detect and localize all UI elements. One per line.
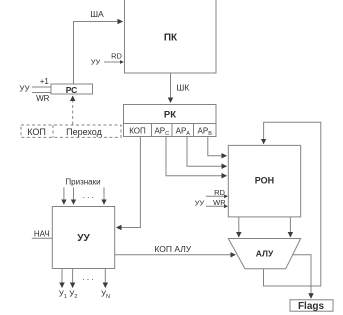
wire UU output y2 <box>69 269 77 300</box>
wire UU WR into RON <box>195 198 228 208</box>
block ALU (trapezoid) <box>228 239 300 269</box>
wire UU output y1 <box>59 269 67 300</box>
svg-text:RD: RD <box>111 52 122 61</box>
wire ALU flags output to Flags <box>292 255 311 298</box>
svg-text:УУ: УУ <box>77 233 90 244</box>
svg-text:УУ: УУ <box>91 58 101 67</box>
svg-text:ПК: ПК <box>164 33 178 44</box>
svg-text:АРА: АРА <box>176 126 191 137</box>
wire +1 into RS <box>32 77 51 87</box>
block Flags <box>290 300 333 312</box>
dots between UU outputs <box>82 273 93 282</box>
wire ALU result feedback to RON <box>264 122 321 286</box>
wire ARb field to RON <box>208 137 227 156</box>
svg-text:WR: WR <box>213 198 226 207</box>
svg-text:Переход: Переход <box>66 127 102 137</box>
wire RON output A into ALU <box>238 217 240 237</box>
wire UU RD into PK <box>91 52 123 67</box>
dashed block KOP / Perekhod <box>21 125 121 137</box>
svg-text:. . .: . . . <box>83 191 94 200</box>
dashed wire from Perekhod up into RS <box>72 96 74 125</box>
svg-text:+1: +1 <box>40 77 50 86</box>
block RS (PC register) <box>51 84 93 95</box>
wire ShK from PK to RK, label ШК <box>171 73 190 103</box>
svg-text:RD: RD <box>214 188 225 197</box>
svg-text:НАЧ: НАЧ <box>34 230 50 239</box>
block UU (control unit) <box>52 207 114 269</box>
wire UU output yn <box>101 269 110 300</box>
svg-text:УN: УN <box>101 290 110 301</box>
wire NACh into UU, label НАЧ <box>32 230 52 239</box>
svg-text:КОП: КОП <box>129 126 146 135</box>
svg-text:УУ: УУ <box>19 85 30 94</box>
block RK (instruction register) with fields <box>124 105 217 137</box>
svg-text:У2: У2 <box>69 290 77 301</box>
wire priznak input 2 into UU <box>73 187 75 204</box>
wire KOP field down to UU <box>117 137 141 228</box>
wire UU RD into RON <box>206 188 227 197</box>
wire RON output B into ALU <box>289 217 291 237</box>
svg-text:КОП АЛУ: КОП АЛУ <box>154 244 191 254</box>
svg-text:АРВ: АРВ <box>198 126 213 137</box>
svg-text:РС: РС <box>66 85 78 95</box>
wire priznak input n into UU <box>103 187 105 204</box>
wire KOP ALU from UU to ALU <box>115 244 235 255</box>
svg-text:У1: У1 <box>59 290 67 301</box>
label Priznaki (flags inputs) <box>65 177 100 186</box>
svg-text:WR: WR <box>36 94 50 103</box>
svg-text:АРС: АРС <box>154 126 169 137</box>
block RON (register file) <box>228 145 300 217</box>
svg-text:УУ: УУ <box>195 198 205 207</box>
wire WR into RS, label УУ <box>19 85 50 104</box>
svg-text:ШК: ШК <box>177 83 190 93</box>
wire ARa field to RON <box>187 137 227 167</box>
svg-text:РОН: РОН <box>255 176 274 186</box>
svg-text:Flags: Flags <box>298 301 325 312</box>
wire priznak input 1 into UU <box>63 187 65 204</box>
svg-text:ША: ША <box>90 9 104 19</box>
dots between priznak inputs <box>83 191 94 200</box>
svg-text:РК: РК <box>164 109 176 120</box>
svg-text:КОП: КОП <box>27 127 46 137</box>
block PK (program counter) <box>125 0 217 73</box>
svg-text:Признаки: Признаки <box>65 177 100 186</box>
wire ShA: from PC register up into PK, label ША <box>74 9 123 84</box>
svg-text:АЛУ: АЛУ <box>256 248 274 258</box>
svg-text:. . .: . . . <box>82 273 93 282</box>
wire ARc field to RON <box>166 137 227 176</box>
